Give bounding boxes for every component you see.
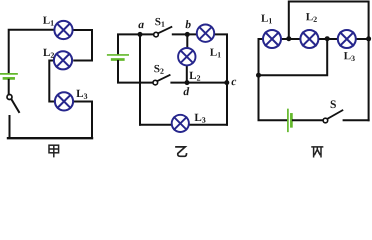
wire bottom xyxy=(8,137,92,139)
wire L2 to L3 xyxy=(319,38,338,40)
wire L1 right, right rail down to bottom xyxy=(214,34,227,124)
wire L3 to right rail xyxy=(356,38,369,40)
battery yi: long positive plate xyxy=(108,54,129,56)
wire S contact to right rail xyxy=(344,119,369,121)
wire bottom: a-rail to L3 xyxy=(140,124,172,126)
switch S1: open blade xyxy=(158,27,171,33)
label L1 bing xyxy=(261,15,272,24)
wire top-left: battery+ up and across to L1 xyxy=(9,30,55,73)
switch S2: open blade xyxy=(158,75,170,81)
label S bing xyxy=(331,100,336,108)
switch S: hinge circle xyxy=(323,118,328,123)
wire L3 right down right rail to bottom xyxy=(73,102,92,138)
label L1 jia xyxy=(43,17,54,26)
junction dot L1-L2 / top riser xyxy=(286,36,291,41)
label L3 yi xyxy=(195,114,206,123)
lamp L3 jia xyxy=(55,92,73,110)
label yi (Chinese) drawn xyxy=(176,147,187,156)
wire S2 contact through d to c xyxy=(171,82,226,84)
wire L1 to L2 xyxy=(281,38,300,40)
battery jia: long positive plate xyxy=(1,73,17,75)
junction dot left rail / middle wire xyxy=(256,73,261,78)
label bing (Chinese) drawn xyxy=(312,147,323,157)
battery bing: short negative plate xyxy=(290,114,293,126)
switch S: open blade xyxy=(328,110,343,118)
node d junction dot xyxy=(185,80,190,85)
label L2 jia xyxy=(43,49,54,58)
switch S2: hinge circle xyxy=(153,80,158,85)
battery bing: long positive plate xyxy=(287,110,289,132)
label L3 bing xyxy=(344,52,355,61)
lamp L3 bing xyxy=(338,30,356,48)
wire battery to switch S xyxy=(293,119,323,121)
wire switch lower contact to bottom xyxy=(9,116,11,138)
wire from node b down to L2 xyxy=(186,34,188,48)
label a xyxy=(138,23,143,29)
label S1 xyxy=(155,18,164,27)
battery yi: short negative plate xyxy=(112,58,123,61)
label d xyxy=(184,87,190,95)
wire S1 contact to L1 xyxy=(173,33,197,35)
label c xyxy=(232,80,237,86)
switch jia: hinge circle xyxy=(7,95,12,100)
wire top: corner to S1 xyxy=(118,34,154,54)
label S2 xyxy=(154,65,163,74)
switch S1: hinge circle xyxy=(154,32,159,37)
label L2 yi xyxy=(189,72,200,81)
wire middle: left rail junction right and up to L2-L3 junction xyxy=(259,39,328,75)
node b junction dot xyxy=(185,32,190,37)
node c junction dot xyxy=(224,80,229,85)
wire top rail xyxy=(289,2,369,39)
lamp L1 jia xyxy=(54,21,72,39)
wire from node a down to bottom rail (crosses S2 branch, no junction) xyxy=(139,34,141,124)
wire lamp row: left rail stub to L1 xyxy=(259,39,264,75)
wire L1 right to right rail down to L2 right xyxy=(73,30,92,61)
wire battery- down, corner to S2 xyxy=(118,61,153,83)
label L2 bing xyxy=(306,13,317,22)
label jia (Chinese) drawn xyxy=(49,145,59,157)
wire battery- down to switch xyxy=(8,80,10,94)
label L3 jia xyxy=(76,90,87,99)
junction dot L2-L3 / middle riser xyxy=(325,36,330,41)
node a junction dot xyxy=(138,32,143,37)
wire left rail down to bottom branch xyxy=(259,75,288,120)
wire right rail through c to bottom xyxy=(368,39,370,120)
wire L2 bottom to node d xyxy=(186,65,188,82)
switch jia: open blade xyxy=(11,99,19,112)
battery jia: short negative plate xyxy=(4,77,14,80)
label b xyxy=(186,20,191,28)
lamp L2 bing xyxy=(300,30,318,48)
wire L3 right to right rail xyxy=(189,124,227,126)
lamp L3 yi xyxy=(172,115,189,132)
lamp L2 yi xyxy=(178,48,195,65)
wire L2 left down to L3 left xyxy=(49,61,55,102)
junction dot L3-right rail xyxy=(366,36,371,41)
lamp L2 jia xyxy=(54,51,72,69)
lamp L1 yi xyxy=(197,25,214,42)
lamp L1 bing xyxy=(263,30,281,48)
label L1 yi xyxy=(210,49,221,58)
